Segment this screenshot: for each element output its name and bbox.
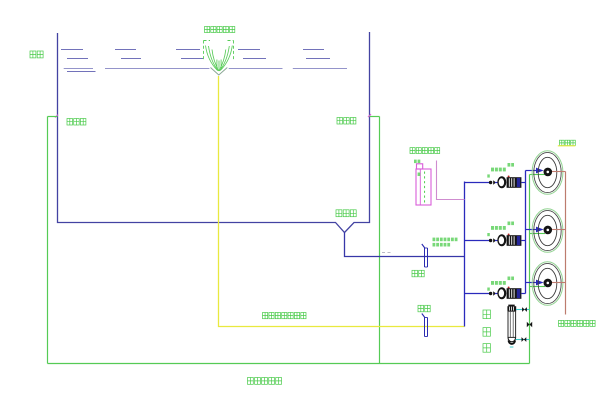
- heater top pipe: [516, 307, 529, 312]
- supply tap left junction tick: [55, 115, 58, 118]
- water surface dash row 1: [61, 49, 324, 51]
- label backwash-drain: [559, 320, 596, 326]
- chemical feeder tank: [416, 164, 431, 205]
- supply main right riser: [379, 117, 381, 364]
- label filters: [558, 140, 576, 146]
- feeder level dashed line: [424, 172, 426, 204]
- dosing line: [437, 161, 465, 200]
- gray marks: [382, 252, 391, 254]
- label feeder small: [414, 160, 420, 164]
- label pump P2: [487, 222, 514, 237]
- label filter/ozone note line1: [433, 238, 458, 242]
- label dosing-chemical: [410, 148, 440, 154]
- label heater vertical: [483, 310, 490, 352]
- label surface-treatment-main: [263, 313, 307, 319]
- pump riser to filters: [525, 171, 527, 294]
- filter F2 green stub: [530, 233, 546, 235]
- filter F2: [526, 209, 566, 253]
- label valve V1: [412, 270, 424, 277]
- label surface-water-treatment: [205, 27, 235, 33]
- label filter/ozone note line2: [433, 243, 451, 247]
- supply riser at filters: [529, 175, 531, 364]
- label pump P3: [487, 277, 514, 291]
- water surface dash row 2: [67, 58, 330, 60]
- label valve V2: [418, 305, 430, 312]
- label supply-port left: [67, 119, 86, 126]
- sprinkler spray symbol: [204, 41, 234, 76]
- yellow pipe from sprinkler: [219, 76, 465, 327]
- supply pipe right tap: [370, 116, 380, 118]
- pump P3: [465, 287, 526, 300]
- filter F1 green stub: [530, 174, 546, 176]
- supply main left riser: [47, 117, 49, 364]
- pump P2: [465, 234, 526, 247]
- supply main bottom run: [48, 363, 530, 365]
- label return-port: [336, 210, 356, 217]
- pool tank outline with return funnel: [58, 32, 370, 233]
- filter F3: [526, 262, 566, 306]
- feeder inner mark: [418, 173, 421, 177]
- filter F3 green stub: [530, 286, 546, 288]
- heater vessel: [507, 305, 516, 347]
- valve on supply riser: [527, 322, 532, 327]
- water surface main line: [64, 69, 347, 72]
- label pump P1: [487, 163, 514, 178]
- label supply-port right: [337, 118, 356, 125]
- suction manifold: [464, 182, 466, 327]
- label supply-main: [248, 378, 282, 385]
- pump P1: [465, 176, 526, 189]
- butterfly valve V2 on yellow main: [422, 314, 428, 337]
- supply tap right junction tick: [368, 114, 371, 117]
- heater bottom pipe: [516, 337, 530, 342]
- butterfly valve V1 on drain: [422, 244, 428, 267]
- backwash drain line: [565, 172, 567, 315]
- filter F1: [526, 151, 566, 195]
- supply pipe left tap: [48, 116, 58, 118]
- label water-surface: [30, 51, 43, 58]
- return drain pipe from funnel: [345, 233, 465, 257]
